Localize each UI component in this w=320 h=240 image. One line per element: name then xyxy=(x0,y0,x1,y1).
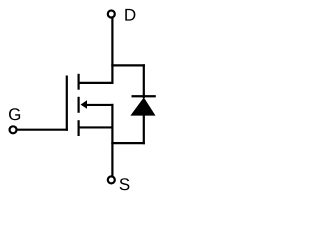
channel dash middle xyxy=(77,97,79,113)
wire branch to diode top xyxy=(111,64,145,66)
wire drain to MOSFET xyxy=(79,82,114,84)
terminal S xyxy=(108,176,115,183)
wire branch to diode bottom xyxy=(111,142,145,144)
label D xyxy=(125,9,135,21)
channel dash bottom xyxy=(77,120,79,136)
diode anode triangle xyxy=(130,97,155,115)
wire gate lead xyxy=(17,129,68,131)
arrowhead into body xyxy=(81,100,87,109)
label G xyxy=(9,108,20,120)
wire right vertical to S xyxy=(111,104,113,176)
wire drain stem xyxy=(111,18,113,84)
diode axis lower xyxy=(143,114,145,144)
terminal G xyxy=(10,126,17,133)
diode axis upper xyxy=(143,64,145,98)
diode cathode bar xyxy=(132,95,156,97)
wire source to MOSFET xyxy=(79,126,114,128)
wire body arrow line xyxy=(86,104,114,106)
label S xyxy=(120,178,130,190)
channel dash top xyxy=(77,74,79,90)
gate bar xyxy=(66,76,68,131)
terminal D xyxy=(108,11,115,18)
